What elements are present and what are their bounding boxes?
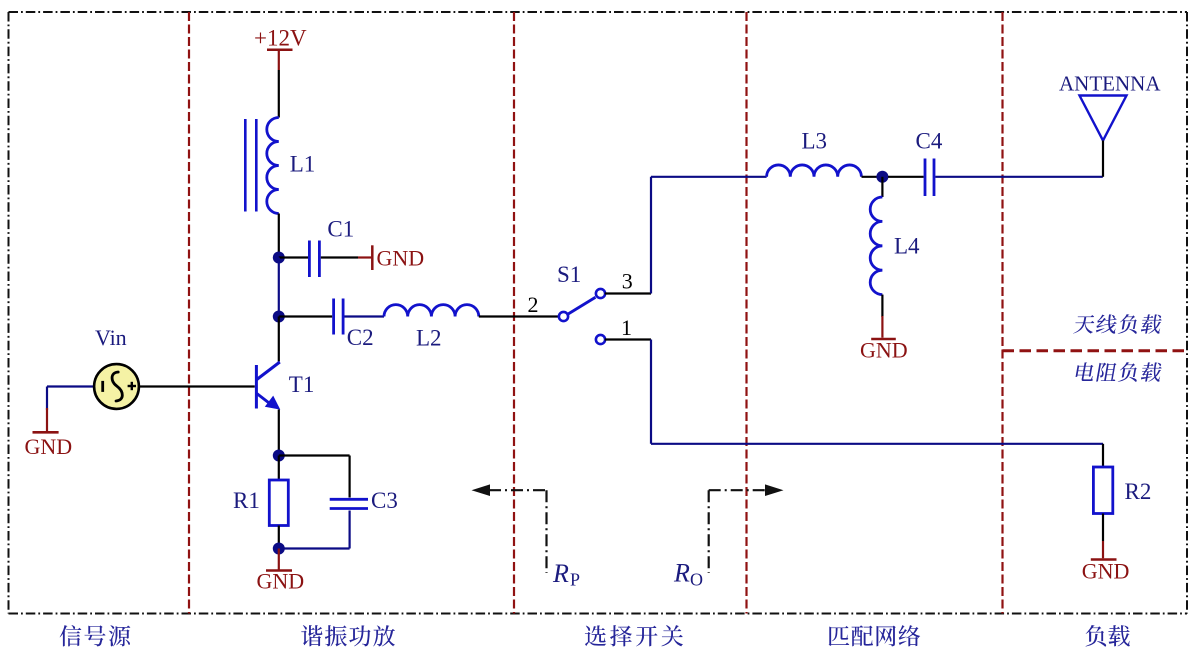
svg-text:L4: L4 [894, 234, 920, 259]
svg-text:R1: R1 [233, 488, 260, 513]
svg-text:P: P [570, 570, 580, 590]
svg-text:3: 3 [622, 269, 633, 294]
svg-text:2: 2 [528, 292, 539, 317]
svg-text:L3: L3 [802, 129, 828, 154]
svg-text:L2: L2 [416, 326, 442, 351]
svg-text:GND: GND [257, 569, 305, 594]
svg-text:R: R [673, 559, 690, 588]
svg-text:O: O [690, 570, 703, 590]
svg-text:R: R [552, 559, 569, 588]
svg-text:C1: C1 [327, 217, 354, 242]
svg-text:GND: GND [1082, 559, 1130, 584]
svg-text:GND: GND [377, 246, 425, 271]
svg-text:S1: S1 [557, 262, 581, 287]
svg-text:C4: C4 [916, 129, 943, 154]
svg-text:R2: R2 [1125, 479, 1152, 504]
svg-text:ANTENNA: ANTENNA [1059, 72, 1161, 96]
svg-text:+12V: +12V [254, 26, 307, 51]
svg-text:L1: L1 [290, 152, 316, 177]
svg-text:1: 1 [621, 315, 632, 340]
svg-text:GND: GND [860, 337, 908, 362]
svg-text:Vin: Vin [95, 325, 127, 350]
svg-text:C3: C3 [371, 488, 398, 513]
svg-text:GND: GND [25, 434, 73, 459]
svg-text:C2: C2 [347, 325, 374, 350]
svg-text:T1: T1 [289, 372, 315, 397]
